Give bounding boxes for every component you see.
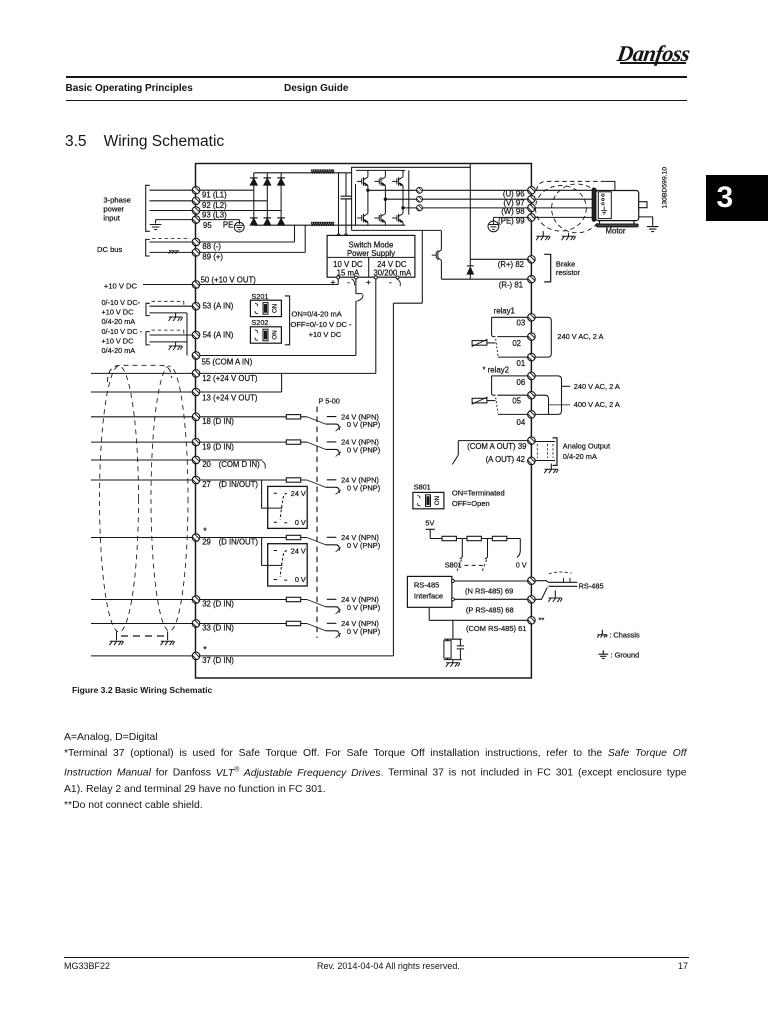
cable shield ellipse 2 — [151, 366, 188, 631]
S801 drop 1 — [460, 539, 463, 559]
svg-text:(COM D IN): (COM D IN) — [219, 460, 261, 469]
0V corner — [517, 539, 520, 558]
svg-text:24 V: 24 V — [291, 546, 306, 555]
svg-text:27: 27 — [202, 480, 211, 489]
footer left — [64, 961, 110, 971]
5V stub — [426, 529, 435, 538]
wire 54 return — [150, 341, 188, 343]
svg-text:89 (+): 89 (+) — [202, 253, 223, 262]
SMPS 10V column — [333, 260, 363, 277]
cable ground 2 — [568, 233, 570, 236]
brake chopper IGBT emitter — [440, 260, 442, 279]
cable shield top dashed — [108, 365, 172, 382]
RS-485 cable shield dashed — [549, 572, 572, 574]
box1 internals — [274, 489, 306, 527]
rectifier diode D4 lower — [250, 218, 258, 225]
DC bus capacitor feed left — [338, 173, 340, 235]
DC choke top — [311, 170, 334, 173]
svg-text:(D IN/OUT): (D IN/OUT) — [219, 538, 259, 547]
termination resistor 1 — [442, 536, 456, 540]
terminal 92 — [191, 193, 204, 206]
svg-text:*: * — [203, 526, 207, 536]
hook 20 — [262, 461, 265, 468]
3-phase input label — [103, 196, 130, 223]
svg-text:0/-10 V DC-: 0/-10 V DC- — [102, 298, 141, 307]
svg-text:0/4-20 mA: 0/4-20 mA — [102, 346, 136, 355]
current sensor U — [415, 184, 425, 194]
terminal (U) 96 — [526, 183, 539, 196]
hook - 24V — [397, 279, 400, 286]
phase junction dot 1 — [367, 189, 369, 191]
relay2 coil — [472, 397, 488, 404]
svg-text:S202: S202 — [251, 318, 268, 327]
wire relay1 01 — [498, 356, 528, 358]
shield ground left — [116, 632, 118, 641]
RS-485 interface box — [407, 576, 452, 607]
svg-text:+: + — [331, 277, 336, 287]
svg-text:06: 06 — [517, 378, 526, 387]
terminal 61 — [526, 613, 539, 626]
motor body — [596, 191, 639, 221]
relay2 actuator dashed — [496, 397, 498, 413]
terminal 04 — [526, 407, 539, 420]
DC- rail — [254, 224, 405, 226]
terminal 81 — [526, 272, 539, 285]
terminal 91 — [191, 183, 204, 196]
terminal 55 — [191, 348, 204, 361]
svg-text:S801: S801 — [414, 483, 431, 492]
wire 37 — [91, 655, 393, 657]
svg-text:(D IN/OUT): (D IN/OUT) — [219, 480, 259, 489]
3-phase bracket — [146, 185, 150, 231]
wire 29 — [91, 537, 286, 539]
phase leg vertical 2 — [384, 170, 386, 211]
svg-text:power: power — [103, 205, 124, 214]
terminal 53 — [191, 299, 204, 312]
terminal 54 — [191, 328, 204, 341]
wire 32 — [91, 599, 286, 601]
NPN/PNP switch row 19 — [301, 438, 380, 457]
wire L1 — [150, 189, 254, 191]
S801 dashed switch 2 — [482, 560, 487, 572]
rectifier column 1 — [253, 173, 255, 225]
relay1 coil lead — [487, 342, 496, 344]
body paragraph — [64, 730, 687, 814]
box2 internals — [274, 546, 306, 584]
wire 53 return — [150, 313, 188, 356]
svg-text:(W) 98: (W) 98 — [501, 207, 524, 216]
motor earth — [647, 227, 659, 232]
legend ground — [602, 650, 604, 654]
DC choke bottom — [311, 222, 334, 225]
svg-text:37 (D IN): 37 (D IN) — [202, 656, 234, 665]
svg-text:3-phase: 3-phase — [103, 196, 130, 205]
svg-text:S201: S201 — [251, 292, 268, 301]
svg-text:05: 05 — [512, 396, 521, 405]
0V drop from DC- — [393, 231, 422, 656]
resistor row 19 — [286, 440, 300, 444]
svg-text:ON=Terminated: ON=Terminated — [452, 489, 505, 498]
mini ground DC bus — [169, 251, 179, 254]
terminal 32 — [191, 592, 204, 605]
wire L2 — [150, 200, 268, 202]
brake DC rail — [469, 164, 471, 260]
24V/0V box 2 — [268, 544, 308, 586]
wire 39 — [452, 441, 527, 465]
inverter top bus — [356, 169, 405, 171]
svg-text:24 V: 24 V — [291, 489, 306, 498]
cable shield bottom dashed — [121, 635, 164, 637]
IGBT upper 1 — [357, 174, 368, 188]
NPN/PNP switch row 32 — [301, 595, 380, 614]
wire relay1 02 — [497, 336, 527, 338]
svg-text:55 (COM A IN): 55 (COM A IN) — [202, 358, 253, 367]
phase leg vertical 1 — [367, 170, 369, 211]
svg-text:+10 V DC: +10 V DC — [102, 308, 134, 317]
RS-485 node 68 — [451, 598, 454, 601]
rectifier diode D5 lower — [264, 218, 272, 225]
svg-text:+10 V DC: +10 V DC — [309, 330, 342, 339]
svg-text:92 (L2): 92 (L2) — [202, 201, 227, 210]
SMPS dividers — [327, 257, 415, 277]
ground 53 — [175, 313, 177, 317]
NPN/PNP switch row 27 — [301, 476, 380, 495]
svg-text:20: 20 — [202, 460, 211, 469]
svg-text:**: ** — [539, 615, 545, 624]
terminal 29 — [191, 530, 204, 543]
terminal (V) 97 — [526, 192, 539, 205]
phase junction dot 2 — [384, 198, 386, 200]
wire 55 — [196, 355, 356, 357]
wire 88 — [150, 225, 295, 242]
wire 89 — [150, 225, 306, 252]
dip switch S201 — [250, 300, 281, 316]
svg-text:32 (D IN): 32 (D IN) — [202, 600, 234, 609]
terminal 12 — [191, 366, 204, 379]
header left title — [66, 83, 193, 94]
motor ground wire — [639, 217, 653, 226]
svg-text:03: 03 — [517, 318, 526, 327]
motor shaft — [639, 202, 647, 208]
wire 29 to 24V box — [262, 538, 283, 566]
terminal 88 — [191, 235, 204, 248]
wire 10V- to COM A IN — [355, 279, 357, 356]
footer right — [678, 961, 688, 971]
wire R+ — [470, 258, 527, 260]
brake resistor bracket — [544, 254, 551, 282]
resistor row 18 — [286, 415, 300, 419]
termination resistor 3 — [492, 536, 506, 540]
phase line W — [403, 207, 527, 209]
svg-text:5V: 5V — [425, 519, 434, 528]
terminal 13 — [191, 385, 204, 398]
svg-text:RS-485: RS-485 — [579, 581, 604, 590]
terminal 37 — [191, 648, 204, 661]
terminal (W) 98 — [526, 200, 539, 213]
svg-text:(R+) 82: (R+) 82 — [498, 260, 524, 269]
svg-text:: Chassis: : Chassis — [609, 631, 640, 640]
chapter tab 3 — [706, 175, 768, 221]
RS-485 cable ground — [554, 591, 556, 598]
analog out ground — [550, 464, 552, 470]
svg-text:input: input — [103, 214, 120, 223]
svg-text:S801: S801 — [445, 560, 462, 569]
drive enclosure box — [196, 164, 532, 679]
svg-text:130BD599.10: 130BD599.10 — [661, 167, 668, 209]
label RS-485 Interface — [414, 580, 443, 600]
analog out bracket — [553, 438, 557, 466]
svg-text:30/200 mA: 30/200 mA — [373, 268, 412, 277]
rectifier column 2 — [266, 173, 268, 225]
SMPS output node 397.6 — [396, 276, 399, 279]
disconnect link on 10V- — [356, 294, 363, 302]
dip switch S202 — [250, 327, 281, 343]
RC termination — [444, 620, 464, 662]
svg-text:resistor: resistor — [556, 268, 581, 277]
svg-text:*: * — [203, 645, 207, 655]
resistor row 32 — [286, 597, 300, 601]
svg-text:RS-485: RS-485 — [414, 580, 439, 589]
svg-text:OFF=Open: OFF=Open — [452, 499, 490, 508]
svg-text:Brake: Brake — [556, 259, 575, 268]
label Brake resistor — [556, 259, 581, 277]
svg-text:Analog Output: Analog Output — [563, 441, 610, 450]
IGBT lower 1 — [357, 211, 368, 225]
motor cable ellipse 1 — [536, 186, 587, 232]
inverter left bus — [355, 184, 357, 225]
phase junction dot 3 — [402, 207, 404, 209]
terminal 19 — [191, 435, 204, 448]
RC resistor — [444, 641, 451, 658]
terminal 01 — [526, 350, 539, 363]
wire relay1 03 — [492, 317, 528, 336]
IGBT upper 3 — [392, 174, 403, 188]
PE earth symbol inside — [488, 217, 528, 231]
legend chassis — [601, 630, 603, 635]
resistor row 33 — [286, 621, 300, 625]
rectifier diode D6 lower — [277, 218, 285, 225]
svg-text:: Ground: : Ground — [611, 651, 640, 660]
motor internal earth — [601, 207, 607, 215]
svg-text:(P RS-485) 68: (P RS-485) 68 — [466, 605, 514, 614]
wire 12-13 link — [281, 373, 283, 392]
RS-485 cable ticks — [564, 578, 571, 583]
wire 10V+ to terminal 50 — [143, 279, 338, 285]
svg-text:53 (A IN): 53 (A IN) — [203, 302, 234, 311]
phase line U — [368, 189, 528, 191]
svg-text:01: 01 — [517, 359, 526, 368]
Danfoss logo — [615, 41, 709, 71]
cable ground 1 — [542, 231, 544, 236]
shield dashes 53 — [152, 301, 185, 306]
DC+ rail — [254, 172, 352, 174]
current sensor W — [415, 202, 425, 212]
resistor row 27 — [286, 478, 300, 482]
figure caption — [72, 685, 212, 695]
terminal 69 — [526, 573, 539, 586]
motor terminal dots — [602, 194, 604, 205]
motor gland — [592, 188, 596, 221]
SMPS feed node left — [337, 234, 340, 237]
relay2 bracket inner — [535, 395, 548, 414]
svg-text:(R-) 81: (R-) 81 — [499, 281, 523, 290]
relay1 actuator dashed — [496, 339, 498, 356]
wire relay2 05 — [497, 394, 527, 396]
svg-text:29: 29 — [202, 538, 211, 547]
wire relay2 06 — [492, 376, 528, 395]
svg-text:(PE) 99: (PE) 99 — [498, 217, 524, 226]
terminal 33 — [191, 616, 204, 629]
motor base — [596, 224, 638, 227]
svg-text:18 (D IN): 18 (D IN) — [202, 417, 234, 426]
svg-text:P 5-00: P 5-00 — [319, 397, 340, 406]
brake chopper IGBT — [432, 250, 442, 261]
shield bond to motor — [603, 181, 615, 190]
svg-text:(V) 97: (V) 97 — [503, 199, 524, 208]
SMPS output node 355.9 — [354, 276, 357, 279]
SMPS title — [347, 240, 395, 258]
wire 53 — [150, 305, 197, 307]
S20x bracket — [285, 296, 290, 345]
relay2 bracket outer — [535, 376, 561, 415]
dip switch S801 — [413, 492, 444, 508]
svg-text:DC bus: DC bus — [97, 245, 123, 254]
svg-text:Motor: Motor — [606, 226, 626, 235]
wire 18 — [91, 416, 286, 418]
IGBT lower 2 — [375, 211, 386, 225]
svg-text:(A OUT) 42: (A OUT) 42 — [486, 455, 525, 464]
wire 19 — [91, 441, 286, 443]
wire L3 — [150, 210, 282, 212]
terminal 95 — [191, 212, 204, 225]
NPN/PNP switch row 33 — [301, 619, 380, 638]
svg-text:+: + — [366, 277, 371, 287]
svg-text:91 (L1): 91 (L1) — [202, 190, 227, 199]
svg-text:ON=0/4-20 mA: ON=0/4-20 mA — [292, 309, 342, 318]
SMPS 24V column — [373, 260, 412, 277]
svg-text:(N RS-485) 69: (N RS-485) 69 — [465, 587, 513, 596]
terminal 39 — [526, 433, 539, 446]
svg-text:95: 95 — [203, 221, 212, 230]
phase line V — [385, 198, 527, 200]
relay1 coil — [472, 339, 488, 346]
bracket 53 — [146, 303, 150, 315]
P 5-00 dashed line — [316, 407, 318, 639]
wire 12 — [91, 372, 376, 374]
wire R- — [441, 259, 527, 279]
motor legs — [600, 221, 635, 224]
svg-text:400 V AC, 2 A: 400 V AC, 2 A — [574, 400, 620, 409]
wire 20 — [91, 459, 262, 461]
header rule top — [66, 76, 687, 77]
svg-text:02: 02 — [512, 339, 521, 348]
svg-text:240 V AC, 2 A: 240 V AC, 2 A — [574, 382, 620, 391]
svg-text:0 V: 0 V — [295, 518, 306, 527]
rectifier diode D1 upper — [250, 178, 258, 185]
svg-text:(COM A OUT) 39: (COM A OUT) 39 — [467, 442, 526, 451]
svg-text:0 V: 0 V — [295, 575, 306, 584]
IGBT upper 2 — [375, 174, 386, 188]
svg-text:88 (-): 88 (-) — [202, 242, 221, 251]
svg-text:-: - — [347, 277, 350, 287]
terminal (PE) 99 — [526, 210, 539, 223]
inverter block box — [352, 167, 471, 230]
brake chopper IGBT collector — [440, 231, 442, 250]
terminal 20 — [191, 453, 204, 466]
DC bus capacitor — [341, 196, 352, 199]
svg-text:19 (D IN): 19 (D IN) — [202, 442, 234, 451]
terminal 82 — [526, 252, 539, 265]
rectifier diode D2 upper — [264, 178, 272, 185]
svg-text:04: 04 — [517, 418, 526, 427]
svg-text:0/-10 V DC -: 0/-10 V DC - — [102, 327, 143, 336]
brake diode — [467, 266, 474, 274]
svg-text:13 (+24 V OUT): 13 (+24 V OUT) — [202, 393, 258, 402]
motor terminal box — [598, 192, 611, 219]
svg-text:(COM RS-485) 61: (COM RS-485) 61 — [466, 624, 526, 633]
PE circled earth — [234, 222, 244, 232]
wire 61 — [429, 607, 527, 620]
NPN/PNP switch row 18 — [301, 412, 380, 431]
svg-text:50 (+10 V OUT): 50 (+10 V OUT) — [201, 276, 257, 285]
footer rule — [64, 957, 689, 958]
header rule bottom — [66, 100, 687, 101]
wire 13 — [91, 391, 282, 393]
svg-text:Interface: Interface — [414, 591, 443, 600]
5V rail — [430, 538, 520, 540]
phase leg vertical 3 — [402, 170, 404, 211]
earth at input — [150, 225, 162, 230]
terminal 27 — [191, 473, 204, 486]
svg-text:54 (A IN): 54 (A IN) — [203, 330, 234, 339]
wire 68 — [454, 598, 527, 600]
svg-text:+10 V DC: +10 V DC — [102, 336, 134, 345]
svg-text:12 (+24 V OUT): 12 (+24 V OUT) — [202, 374, 258, 383]
svg-text:PE: PE — [223, 221, 233, 230]
terminal 03 — [526, 310, 539, 323]
wire 24V+ down to 12 — [375, 279, 377, 374]
motor wire V — [536, 198, 599, 200]
svg-text:240 V AC, 2 A: 240 V AC, 2 A — [557, 332, 603, 341]
resistor row 29 — [286, 535, 300, 539]
label analog in 2 — [102, 327, 143, 355]
DC bus bracket — [146, 239, 150, 256]
NPN/PNP switch row 29 — [301, 533, 380, 552]
svg-text:Power Supply: Power Supply — [347, 249, 395, 258]
hook - 10V — [352, 279, 355, 286]
IGBT lower 3 — [392, 211, 403, 225]
section title 3.5 Wiring Schematic — [65, 133, 224, 151]
motor wire U — [536, 189, 599, 191]
svg-text:0/4-20 mA: 0/4-20 mA — [563, 452, 597, 461]
shield dashes 54 — [152, 330, 185, 335]
RS-485 cable wires — [536, 581, 578, 600]
S801 drop 2 — [485, 539, 488, 559]
wire 27 — [91, 479, 286, 481]
svg-text:+10 V DC: +10 V DC — [104, 281, 138, 290]
wire relay2 04 — [498, 413, 528, 415]
svg-text:-: - — [389, 277, 392, 287]
logo underline — [620, 62, 686, 64]
footer center — [317, 961, 460, 971]
svg-text:relay1: relay1 — [494, 306, 515, 315]
wire 54 — [150, 334, 197, 336]
svg-text:33 (D IN): 33 (D IN) — [202, 624, 234, 633]
S801 dashed link — [465, 564, 487, 566]
svg-text:OFF=0/-10 V DC -: OFF=0/-10 V DC - — [291, 320, 353, 329]
bracket 54 — [146, 332, 150, 345]
ground 54 — [175, 342, 177, 346]
